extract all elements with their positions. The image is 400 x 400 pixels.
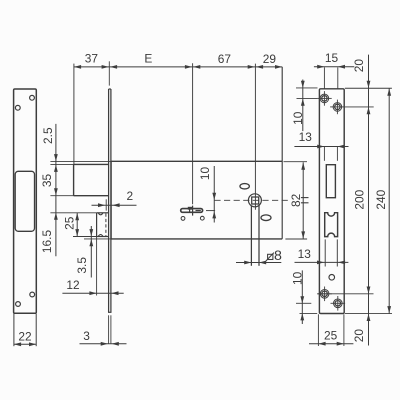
dim 16.5 arrow up [54,213,58,220]
dim 29 arrow left [256,65,263,69]
svg-text:240: 240 [374,189,388,209]
dim 13 top arrow right-pointing [317,145,324,149]
dim 10 body arrow up [212,211,216,218]
dim 82 arrow up [301,163,305,170]
ext line body top to left chain [50,161,111,163]
svg-text:22: 22 [18,329,32,343]
dim 10 top line [302,80,304,132]
ext line cup top to left chain [50,212,96,214]
svg-text:25: 25 [324,329,338,343]
dim 25 arrow down [75,229,79,236]
ext line body bottom right [285,238,307,240]
svg-text:2: 2 [126,189,133,203]
dim 12 arrow right-pointing [89,291,96,295]
dim 13 bottom line [295,261,349,263]
lock body bottom edge [111,238,282,240]
dim 25 bottom line [309,343,353,345]
dashed centerline through follower [214,199,289,201]
cup pocket top arc [98,213,103,215]
dim 22 arrow left [14,342,21,346]
small circle O on faceplate [329,275,335,281]
keyhole slot outline [181,209,203,213]
strike plate outline (front view) [14,89,37,313]
dim E arrow left [110,65,117,69]
dim 20 top arrow down [367,81,371,88]
follower circle [248,194,261,207]
dim 15 arrow right-pointing [317,65,324,69]
dim 3 arrow left-pointing [112,342,119,346]
keyhole top bump [188,207,191,209]
ext 13 bottom right [336,239,338,266]
svg-text:13: 13 [299,130,313,144]
ext plate bottom right [345,313,392,315]
svg-text:2.5: 2.5 [41,127,55,144]
svg-text:E: E [144,51,152,65]
ext 13 top left vertical [323,147,325,161]
svg-text:35: 35 [40,174,54,188]
screw top-left horizontal ext [297,97,318,99]
dim 240 vertical line [388,88,390,313]
dim 200 arrow down [367,287,371,294]
keyhole small circle left [181,217,185,221]
svg-text:200: 200 [353,189,367,209]
dim 13 bottom arrow right-pointing [317,261,324,265]
ext line bolt bottom to left chain [50,195,73,197]
svg-text:13: 13 [298,247,312,261]
strike plate screw hole top-right [30,95,35,100]
square symbol of sq8 label [268,254,273,259]
ext plate top left [296,87,318,89]
screw bottom-left horizontal ext [317,293,373,295]
ext line 15 left [323,67,325,89]
svg-text:25: 25 [62,216,76,230]
svg-text:16.5: 16.5 [40,230,54,254]
dim 15 line [314,66,354,68]
dim 29 arrow right [275,65,282,69]
top dim line [74,66,282,68]
dim 20 bottom arrow up [367,314,371,321]
ext 25 right [343,314,345,346]
dim 12 line [62,292,123,294]
dim 3.5 arrow down [89,229,93,236]
deadbolt outline [74,163,109,165]
dim 13 bottom arrow left-pointing [338,261,345,265]
dim 3.5 arrow up [89,239,93,246]
ext line faceplate top dim [108,61,110,85]
dim 25 arrow left [318,342,325,346]
svg-text:20: 20 [352,329,366,343]
dim 22 line [14,343,36,345]
dim 37 arrow right [102,65,109,69]
ext 13 top right vertical [336,147,338,161]
svg-text:3.5: 3.5 [75,257,89,274]
dim 25 line vertical [76,213,78,237]
dim 67 arrow left [193,65,200,69]
screw bottom-right left ext [296,302,311,304]
follower cutout bobbin [325,213,338,237]
dim 82 tick upper [301,197,309,199]
dim 35 arrow down [54,188,58,195]
faceplate bottom cap [108,311,112,313]
ext line keyhole center vertical [192,63,194,204]
dim 3 line [80,343,127,345]
dim sq8 arrow right-pointing [244,261,251,265]
dim 10 bottom arrow up [300,313,304,320]
faceplate screw top-right [333,103,342,112]
dim 37 arrow left [74,65,81,69]
cup pocket bottom arc [98,235,103,237]
dim 3.5 line vertical [90,226,92,278]
dim 22 arrow right [29,342,36,346]
dim sq8 line [236,262,281,264]
dim 10 body line vertical [213,166,215,223]
cup pocket hidden face dashed [105,214,107,237]
svg-text:37: 37 [85,52,99,66]
dim 10 bottom line [301,270,303,324]
faceplate screw top-left [320,94,329,103]
follower square hole [252,197,259,204]
dim 13 top line [294,146,348,148]
ext plate bottom left [300,312,318,314]
ext line 15 right [337,67,339,89]
svg-text:10: 10 [198,167,212,181]
ext line body bottom left [84,238,111,240]
keyhole vertical cross stroke [192,206,194,216]
ext line bolt top to left chain [50,163,73,165]
upper adjuster slot [240,184,249,189]
dim 10 top arrow down [301,81,305,88]
dim 240 arrow up [387,89,391,96]
dim 12 arrow left-pointing [111,291,118,295]
strike plate screw hole bottom-right [30,292,35,297]
keyhole inner mid line [196,210,201,212]
strike plate bolt cutout [15,171,34,231]
dim 3 arrow right-pointing [101,342,108,346]
svg-text:8: 8 [274,248,282,264]
svg-text:12: 12 [66,278,80,292]
extension line bolt left edge up to dim 37 [73,64,75,165]
keyhole inner tick left [189,209,191,213]
faceplate front outline [319,89,344,314]
faceplate screw bottom-left [320,290,329,299]
ext plate top right [345,87,392,89]
ext 25 left [317,314,319,346]
lock body top edge [111,160,282,162]
lock body left edge [110,161,112,239]
lower adjuster slot [261,215,271,221]
dim 25 arrow up [75,213,79,220]
svg-text:82: 82 [289,193,303,207]
dim 2 arrow right-pointing [98,203,105,207]
faceplate screw bottom-right [334,299,343,308]
follower slot right line [258,205,260,266]
svg-text:10: 10 [291,111,305,125]
dim E arrow right [185,65,192,69]
svg-text:20: 20 [352,59,366,73]
dim 2.5 arrow down [54,154,58,161]
svg-text:3: 3 [83,329,90,343]
dim 200-20 vertical line [368,55,370,346]
key slot rectangle [326,165,335,198]
svg-text:10: 10 [291,271,305,285]
svg-text:67: 67 [218,52,232,66]
dim 22 extension line left [13,314,15,346]
svg-text:29: 29 [263,52,277,66]
keyhole centerline right stub [206,210,215,212]
dim 22 extension line right [35,314,37,346]
dim 15 arrow left-pointing [338,65,345,69]
dim 2 line [92,204,137,206]
dim 67 arrow right [248,65,255,69]
cup pocket outline [97,212,109,214]
ext line body top right [284,161,308,163]
left chain dim line vertical [55,124,57,256]
faceplate top cap [109,88,111,90]
ext line cup left edge down [96,237,98,296]
faceplate ext lines for dim 3 [108,315,110,344]
strike plate screw hole bottom-left [16,302,21,307]
ext 13 bottom left [324,239,326,266]
dim 25 arrow right [337,342,344,346]
ext line follower center vertical [254,64,256,210]
keyhole small circle right [200,216,204,220]
follower slot left line [250,206,252,266]
dim sq8 arrow left-pointing [259,261,266,265]
dim 240 arrow down [387,306,391,313]
ext line cup bottom left [73,236,97,238]
dim 35 arrow up [54,165,58,172]
dim 2 tick [105,199,107,210]
svg-text:15: 15 [325,51,339,65]
dim 82 arrow down [301,231,305,238]
faceplate edge front line [108,89,110,312]
dim 82 tick lower [301,202,309,204]
strike plate screw hole top-left [15,105,20,110]
dim 10 body arrow down [212,193,216,200]
screw top-right horizontal ext [345,106,374,108]
dim 10 top arrow up [301,99,305,106]
faceplate edge back line [110,89,112,312]
dim 10 bottom arrow down [300,296,304,303]
dim 82 line [302,162,304,239]
dim 13 top arrow left-pointing [337,145,344,149]
dim 2 arrow left-pointing [112,203,119,207]
dim 200 arrow up [367,107,371,114]
lock body right edge with extension to top dim [281,67,283,239]
